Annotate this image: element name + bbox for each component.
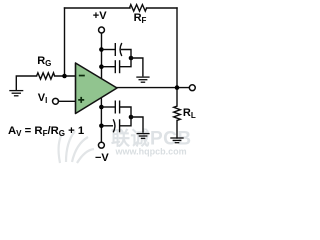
terminal +V [99, 27, 105, 33]
ground RL [170, 138, 183, 143]
resistor RF [130, 5, 147, 12]
op-amp minus input sign [79, 75, 85, 77]
wire top rail left segment [65, 7, 131, 9]
svg-text:RG: RG [37, 55, 51, 68]
node junction RG/feedback [62, 74, 67, 79]
node junction top cap common [129, 56, 134, 61]
capacitor C2 ceramic (+V) [101, 58, 131, 73]
capacitor C4 polarized (-V) [101, 117, 131, 132]
svg-text:AV = RF/RG + 1: AV = RF/RG + 1 [8, 125, 84, 138]
op-amp plus input sign [78, 97, 84, 103]
node junction output [175, 85, 180, 90]
terminal output [189, 85, 195, 91]
wire -V supply vertical [100, 98, 102, 142]
svg-text:+V: +V [93, 10, 107, 22]
wire +V supply vertical [101, 33, 103, 78]
ground bottom mid [137, 134, 150, 139]
node junction +V cap1 [99, 47, 104, 52]
ground top mid [136, 77, 149, 82]
svg-text:VI: VI [38, 92, 48, 105]
wire RL bottom lead [176, 120, 178, 138]
svg-text:RF: RF [134, 12, 147, 25]
wire left feedback vertical [64, 8, 66, 76]
node junction bottom cap common [129, 115, 134, 120]
wire RG right lead to op-amp [55, 75, 76, 77]
wire top rail right segment [147, 7, 178, 9]
wire RG left lead and ground drop [16, 76, 36, 90]
wire RL top lead [176, 88, 178, 107]
svg-text:www.hqpcb.com: www.hqpcb.com [115, 147, 187, 157]
capacitor C1 polarized (+V) [101, 43, 131, 58]
ground left (RG) [9, 91, 23, 96]
wire output [117, 87, 189, 89]
wire VI to op-amp [59, 100, 76, 102]
svg-text:−V: −V [95, 152, 109, 164]
resistor RL [174, 106, 181, 120]
terminal VI [53, 98, 59, 104]
capacitor C3 ceramic (-V) [101, 101, 131, 118]
svg-text:RL: RL [183, 107, 196, 120]
watermark text 联诚PCB [111, 128, 192, 157]
node junction -V cap1 [99, 105, 104, 110]
terminal -V [98, 142, 104, 148]
wire bottom cap ground branch [131, 117, 143, 133]
op-amp U1 [76, 63, 118, 114]
resistor RG [37, 73, 55, 79]
watermark logo flower [59, 131, 94, 163]
node junction -V cap2 [99, 124, 104, 129]
wire right feedback vertical [176, 8, 178, 88]
node junction +V cap2 [99, 64, 104, 69]
wire top cap ground branch [131, 58, 143, 76]
